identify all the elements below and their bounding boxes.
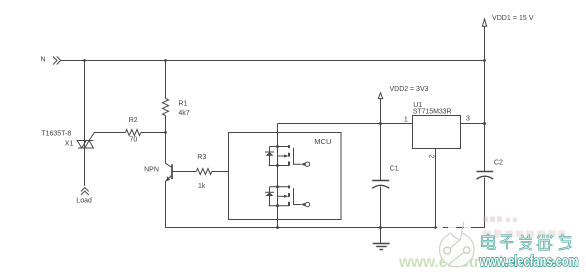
wire U1 pin2 down [435, 149, 437, 228]
svg-text:R2: R2 [129, 117, 138, 124]
junction M1 drain node [276, 145, 279, 148]
svg-text:NPN: NPN [144, 167, 159, 174]
wire left vertical to triac [84, 61, 86, 141]
junction VDD2 rail / pin1 wire [379, 122, 382, 125]
triac X1 [77, 141, 94, 149]
capacitor C1 [372, 181, 389, 228]
watermark pink text upper [483, 217, 517, 223]
junction M1 source node [276, 164, 279, 167]
watermark logo elecfans [440, 222, 475, 267]
junction M2 drain node [276, 185, 279, 188]
svg-text:Load: Load [76, 198, 92, 205]
junction C1-ground / ground wire [379, 226, 382, 229]
wire R2 to node [141, 132, 166, 134]
power VDD1 [482, 19, 486, 61]
wire R1 to node [165, 116, 167, 133]
svg-text:70: 70 [130, 137, 138, 144]
svg-text:C2: C2 [494, 159, 503, 166]
svg-text:T1635T-8: T1635T-8 [41, 131, 71, 138]
junction MCU chain / ground wire [276, 226, 279, 229]
svg-text:R1: R1 [178, 101, 187, 108]
wire NPN base to R3 [172, 171, 196, 173]
svg-text:R3: R3 [197, 154, 206, 161]
svg-text:1k: 1k [198, 183, 206, 190]
ground GND1 [373, 228, 390, 250]
transistor Q1 NPN [166, 163, 173, 181]
wire NPN emitter down [166, 182, 486, 228]
watermark pink text lower [483, 230, 565, 238]
svg-text:3: 3 [466, 115, 470, 122]
wire MCU top to U1 pin1 [278, 123, 413, 125]
wire U1 pin3 to rail [461, 123, 485, 125]
node N connector [53, 57, 61, 65]
wire node to NPN collector [165, 133, 167, 164]
node Load connector [81, 188, 89, 195]
svg-text:1: 1 [404, 116, 408, 123]
resistor R1 [163, 99, 169, 116]
junction M2 source node [276, 204, 279, 207]
svg-text:2: 2 [428, 154, 435, 158]
svg-text:C1: C1 [390, 165, 399, 172]
capacitor C2 [477, 172, 494, 228]
wire R1 branch vertical [165, 61, 167, 99]
svg-text:VDD2 = 3V3: VDD2 = 3V3 [390, 86, 429, 93]
svg-text:ST715M33R: ST715M33R [413, 109, 452, 116]
junction N rail / R1 branch [164, 59, 167, 62]
MCU block U2 [229, 133, 342, 220]
junction N rail / triac branch [83, 59, 86, 62]
wire triac gate [89, 133, 125, 141]
svg-text:X1: X1 [65, 140, 74, 147]
resistor R3 [196, 169, 212, 175]
svg-text:MCU: MCU [314, 137, 331, 146]
svg-text:4k7: 4k7 [178, 110, 189, 117]
regulator U1 box [413, 116, 461, 149]
MOSFET M1 [265, 145, 310, 166]
wire VDD2 down to C1 [380, 124, 382, 181]
junction pin3 wire / VDD1 rail [483, 122, 486, 125]
junction R2 / R1 / collector node [164, 131, 167, 134]
resistor R2 [125, 130, 140, 136]
junction U1 pin2 / ground wire [434, 226, 437, 229]
power VDD2 [378, 93, 382, 124]
wire R3 to MCU [212, 171, 229, 173]
svg-text:VDD1 = 15 V: VDD1 = 15 V [492, 15, 534, 22]
MOSFET M2 [265, 185, 310, 206]
svg-text:N: N [41, 57, 46, 64]
wire right rail down to C2 [484, 61, 486, 172]
wire MOSFET chain vertical [277, 124, 279, 228]
watermark white haze over bottom wire [437, 224, 522, 232]
wire triac to load [84, 148, 86, 186]
junction N rail / VDD1 rail [483, 59, 486, 62]
svg-text:www.elecfans.com: www.elecfans.com [479, 253, 579, 270]
wire N rail top [61, 60, 485, 62]
